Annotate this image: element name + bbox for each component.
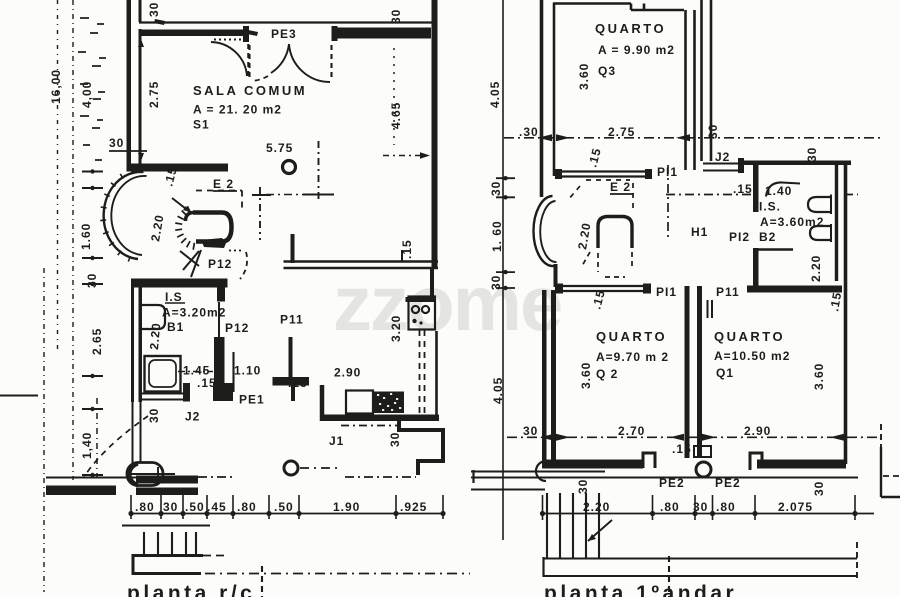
svg-text:2.65: 2.65 <box>90 328 104 355</box>
svg-text:30: 30 <box>85 273 99 288</box>
dim arrow sala west bottom <box>138 153 144 161</box>
J2 window lines <box>703 164 742 171</box>
dimension row r/c <box>131 513 444 515</box>
sala door open leaf dotted <box>214 39 247 41</box>
outer wall east (right of sala) <box>432 0 438 268</box>
svg-text:30: 30 <box>693 500 708 514</box>
inner face west wall <box>139 29 142 164</box>
washbasin <box>142 305 165 329</box>
stair dashes below <box>582 252 632 277</box>
PI1 lower wall <box>555 286 651 291</box>
svg-text:planta 1ºandar: planta 1ºandar <box>544 582 737 597</box>
corridor jamb bar <box>214 337 225 383</box>
I.S. north wall <box>131 279 228 288</box>
boundary line 2 <box>72 0 74 480</box>
svg-text:30: 30 <box>389 9 403 24</box>
J2 jamb blocks <box>183 383 190 402</box>
svg-text:1.60: 1.60 <box>79 223 93 250</box>
svg-text:P11: P11 <box>280 313 304 327</box>
sala door swing arc <box>211 42 247 76</box>
right edge fragment <box>880 424 882 447</box>
svg-text:2.75: 2.75 <box>608 125 635 139</box>
svg-text:16,00: 16,00 <box>49 69 63 104</box>
wall stub above top wall <box>139 0 142 22</box>
PE2 small box <box>694 446 711 457</box>
svg-text:2.90: 2.90 <box>744 424 771 438</box>
stair core right plan <box>598 217 632 249</box>
stove counter box <box>409 297 436 330</box>
I.S. east wall <box>835 165 838 281</box>
J1 sill dashdot <box>341 425 399 427</box>
svg-text:1.40: 1.40 <box>765 184 792 198</box>
dim boundary line right plan <box>502 0 504 540</box>
stair dashed outline right plan <box>568 180 633 212</box>
svg-text:1,40: 1,40 <box>80 432 94 459</box>
I.S. east jamb block <box>217 279 225 302</box>
jamb tick sala inner <box>247 30 258 36</box>
Q1 south jamb step <box>750 453 762 470</box>
door jamb PE3 left <box>243 26 249 42</box>
svg-text:planta r/c: planta r/c <box>127 582 255 597</box>
axis marker hall <box>259 187 261 240</box>
kitchen south wall <box>320 415 439 422</box>
west wall inner face <box>553 3 556 176</box>
svg-text:Q 2: Q 2 <box>596 367 618 381</box>
svg-text:.80: .80 <box>716 500 736 514</box>
stair diagonal marks <box>180 250 201 277</box>
Q1 south wall <box>757 460 846 469</box>
svg-text:4.05: 4.05 <box>488 81 502 108</box>
svg-text:4.65: 4.65 <box>389 102 403 129</box>
svg-text:1.90: 1.90 <box>333 500 360 514</box>
stair lower blob (P12 jamb) <box>201 238 226 248</box>
svg-text:4,00: 4,00 <box>80 81 94 108</box>
chain line 1.40 <box>96 398 98 477</box>
svg-text:30: 30 <box>523 424 538 438</box>
kitchen east wall lower <box>435 331 438 417</box>
svg-text:PE3: PE3 <box>271 27 297 41</box>
svg-text:.15: .15 <box>733 182 753 196</box>
svg-text:A = 9.90 m2: A = 9.90 m2 <box>598 43 675 57</box>
svg-text:QUARTO: QUARTO <box>596 329 667 344</box>
entry column oval <box>127 463 163 486</box>
svg-text:I.S.: I.S. <box>759 200 781 214</box>
dashdot link to sala axis <box>266 194 334 196</box>
column circle PE2 <box>696 462 711 477</box>
svg-text:zzome: zzome <box>333 259 561 347</box>
porch upper line <box>46 477 136 479</box>
svg-text:QUARTO: QUARTO <box>714 329 785 344</box>
west wall corner cap <box>127 164 144 172</box>
svg-text:30: 30 <box>147 408 161 423</box>
svg-text:30: 30 <box>576 479 590 494</box>
kitchen west wall lower <box>289 337 293 377</box>
svg-text:I.S: I.S <box>165 290 183 304</box>
bay wall below <box>554 264 558 287</box>
svg-text:PI1: PI1 <box>656 285 677 299</box>
svg-text:SALA COMUM: SALA COMUM <box>193 83 307 98</box>
top wall outer line <box>139 21 433 23</box>
Q2 south wall <box>542 460 643 469</box>
closet west wall <box>753 248 759 287</box>
door PE3 left leaf dashed <box>248 45 250 80</box>
top wall inner band east segment <box>337 28 431 39</box>
svg-text:30: 30 <box>805 147 819 162</box>
svg-text:.50: .50 <box>274 500 294 514</box>
south face line <box>471 476 858 478</box>
svg-text:B2: B2 <box>759 230 776 244</box>
H1 axis dashdot <box>666 194 752 196</box>
door PE3 right leaf dashed <box>330 45 332 80</box>
svg-text:B1: B1 <box>167 320 184 334</box>
svg-text:A=3.20m2: A=3.20m2 <box>162 306 226 320</box>
svg-text:.15: .15 <box>672 442 692 456</box>
svg-text:.80: .80 <box>660 500 680 514</box>
stair core U <box>193 213 232 242</box>
curved stair bay wall outer <box>104 172 144 259</box>
west extension lines <box>471 470 605 472</box>
kitchen east wall <box>430 268 434 297</box>
column circle terrace <box>284 461 298 475</box>
sala south wall double line <box>284 260 439 262</box>
door PE3 right swing arc <box>289 44 330 82</box>
I.S. west wall <box>131 279 134 402</box>
jamb tick top wall left <box>154 19 165 25</box>
svg-text:2.20: 2.20 <box>583 500 610 514</box>
svg-text:PE2: PE2 <box>715 476 741 490</box>
svg-text:30: 30 <box>109 136 124 150</box>
stair dashed outline <box>196 191 242 209</box>
hatch marks strip <box>78 18 106 160</box>
J2 window sill lines <box>142 394 184 400</box>
svg-text:.45: .45 <box>207 500 227 514</box>
SE corner jog wall <box>399 417 443 475</box>
svg-text:J1: J1 <box>329 434 344 448</box>
svg-text:PE1: PE1 <box>239 393 265 407</box>
terrace dashdot line <box>345 476 416 478</box>
svg-text:30: 30 <box>812 481 826 496</box>
axis marker 5.75 <box>318 141 320 202</box>
svg-text:30: 30 <box>489 181 503 196</box>
svg-text:P12: P12 <box>225 321 249 335</box>
I.S. west wall <box>753 165 759 212</box>
closet south wall <box>747 286 842 293</box>
outer wall left (west) <box>127 0 132 164</box>
stairs right plan treads <box>547 493 599 558</box>
top wall Q3 <box>553 4 684 11</box>
svg-text:E 2: E 2 <box>610 180 631 194</box>
I.S. top wall right plan <box>742 161 851 166</box>
boundary line 3 bottom <box>43 268 45 592</box>
dashed vertical x262 <box>261 566 263 597</box>
svg-text:.80: .80 <box>237 500 257 514</box>
toilet <box>808 197 831 212</box>
dashdot continuation lower <box>205 573 470 575</box>
svg-text:.30: .30 <box>519 125 539 139</box>
svg-text:PI2: PI2 <box>729 230 750 244</box>
svg-text:A = 21. 20 m2: A = 21. 20 m2 <box>193 103 282 117</box>
small bay arc bottom left <box>536 461 546 481</box>
svg-text:2.90: 2.90 <box>334 366 361 380</box>
Q3 east wall <box>686 10 695 170</box>
svg-text:PE2: PE2 <box>659 476 685 490</box>
svg-text:4.05: 4.05 <box>491 377 505 404</box>
svg-text:2.70: 2.70 <box>618 424 645 438</box>
arrowhead at east wall <box>420 152 430 158</box>
outer NE wall <box>702 0 712 161</box>
kitchen south-west wall <box>320 385 325 421</box>
svg-text:2.075: 2.075 <box>778 500 813 514</box>
porch wall thick right <box>136 476 198 484</box>
kitchen west wall upper <box>291 234 295 263</box>
svg-text:2.20: 2.20 <box>575 221 594 250</box>
top wall inner band west segment <box>140 30 244 37</box>
svg-text:S1: S1 <box>193 118 210 132</box>
svg-text:.50: .50 <box>185 500 205 514</box>
outer east wall right plan <box>844 162 848 464</box>
Q3 south wall <box>555 172 651 177</box>
balcony lines bottom <box>543 558 858 560</box>
bidet <box>810 226 831 240</box>
svg-text:2.20: 2.20 <box>148 213 167 242</box>
closet top stub <box>758 248 793 251</box>
svg-text:Q3: Q3 <box>598 64 616 78</box>
svg-text:J2: J2 <box>185 410 200 424</box>
bottom-left wall line <box>0 395 38 397</box>
porch lower line <box>122 524 210 526</box>
svg-text:5.75: 5.75 <box>266 141 293 155</box>
svg-text:P11: P11 <box>716 285 740 299</box>
P11 jamb T foot <box>273 377 310 386</box>
dim arrow sala west top <box>138 39 144 47</box>
curved stair bay wall inner <box>111 176 146 255</box>
property line left <box>57 0 59 350</box>
svg-text:30: 30 <box>163 500 178 514</box>
svg-text:30: 30 <box>388 432 402 447</box>
small stub right of middle wall <box>708 300 713 318</box>
sink black box <box>373 392 404 414</box>
svg-text:3.60: 3.60 <box>579 362 593 389</box>
Q2 south jamb step <box>643 453 655 468</box>
svg-text:30: 30 <box>706 124 720 139</box>
svg-text:.15: .15 <box>827 291 844 313</box>
svg-text:30: 30 <box>147 2 161 17</box>
door jamb PE3 right <box>332 26 338 41</box>
bathtub <box>145 356 181 392</box>
svg-text:3.20: 3.20 <box>389 315 403 342</box>
entry swing dashed arc <box>84 416 148 477</box>
door P12 dashed swing <box>229 250 243 252</box>
svg-text:1.10: 1.10 <box>234 364 261 378</box>
svg-text:A=10.50 m2: A=10.50 m2 <box>714 349 790 363</box>
svg-text:.80: .80 <box>135 500 155 514</box>
corridor thin line <box>232 352 234 392</box>
porch black band <box>46 486 116 496</box>
svg-text:2.20: 2.20 <box>809 255 823 282</box>
chain ticks left strip <box>82 172 103 476</box>
svg-text:QUARTO: QUARTO <box>595 21 666 36</box>
door PE3 left swing arc <box>271 44 289 73</box>
middle wall Q2/Q1 <box>685 286 690 458</box>
dashed vertical x669 <box>668 556 670 597</box>
dimension row 1 andar <box>540 513 874 515</box>
bay hatch ticks <box>100 168 133 261</box>
bathroom west wall lower <box>132 402 134 463</box>
svg-text:3.60: 3.60 <box>812 363 826 390</box>
curved bay right plan inner <box>540 201 556 262</box>
counter dashed edge <box>420 330 425 414</box>
svg-text:2.75: 2.75 <box>147 81 161 108</box>
svg-text:.925: .925 <box>400 500 427 514</box>
svg-text:2.20: 2.20 <box>147 322 163 350</box>
stair direction arrow <box>588 520 612 541</box>
stair tread ticks <box>175 206 194 249</box>
dashdot continuation upper <box>203 555 228 557</box>
hall north wall <box>139 164 228 172</box>
svg-text:3.60: 3.60 <box>577 63 591 90</box>
svg-text:1. 60: 1. 60 <box>490 220 504 252</box>
sink counter <box>346 391 373 414</box>
stair core left curl <box>186 213 194 222</box>
sink speckles <box>377 394 401 410</box>
svg-text:P12: P12 <box>208 257 232 271</box>
sala door closed dashed <box>247 44 249 78</box>
svg-text:H1: H1 <box>691 225 708 239</box>
column circle sala <box>283 161 296 174</box>
Q2 west wall <box>542 290 547 461</box>
svg-text:Q1: Q1 <box>716 366 734 380</box>
right plan west wall <box>540 0 544 197</box>
svg-text:E 2: E 2 <box>213 177 234 191</box>
stair block outline <box>133 556 203 574</box>
entrance stair treads <box>144 532 196 554</box>
svg-text:.15: .15 <box>585 146 604 169</box>
stair up arrow <box>172 198 190 212</box>
svg-text:J2: J2 <box>715 150 730 164</box>
dim line 4.65 dashes <box>393 48 395 145</box>
bathtub 1.40 <box>766 182 800 196</box>
svg-text:A=9.70 m 2: A=9.70 m 2 <box>596 350 669 364</box>
curved bay right plan outer <box>533 196 553 266</box>
